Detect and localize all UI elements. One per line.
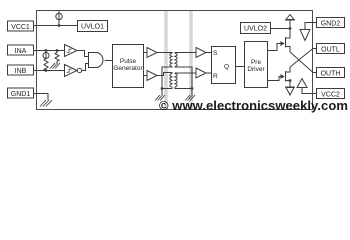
pin GND2 [317, 18, 345, 28]
pin VCC1 [8, 21, 34, 31]
wire gate Q1 [268, 44, 280, 51]
wire T1 primary return [162, 67, 172, 89]
node INA-clamp [45, 49, 48, 52]
wire INA [34, 50, 65, 52]
ground primary [155, 89, 165, 101]
isolation barrier [166, 11, 191, 110]
resistor R1 [44, 59, 48, 72]
pin GND1 [8, 88, 34, 98]
svg-text:GND2: GND2 [321, 21, 341, 28]
pin OUTH [317, 68, 345, 78]
wire OUTL pin [313, 48, 316, 50]
pre driver U3 [245, 42, 268, 88]
wire T1 secondary return [175, 67, 192, 89]
clamp source D1 [43, 51, 49, 60]
wire UVLO2 to node [271, 27, 292, 30]
wire INB [34, 70, 65, 72]
arrow VCC2 to stage [297, 79, 307, 88]
UVLO1 U4 [78, 21, 108, 32]
svg-text:INB: INB [15, 68, 27, 75]
svg-text:S: S [213, 50, 218, 57]
schmitt buffer ST1 [65, 45, 78, 57]
wire G1 to pulse generator [105, 60, 112, 62]
svg-text:R: R [213, 73, 218, 80]
arrow GND2 to stage [300, 30, 310, 41]
watermark [159, 98, 350, 113]
transformer T1 secondary [175, 53, 177, 67]
wire GND1 [34, 94, 49, 101]
svg-text:INA: INA [15, 48, 27, 55]
wire to buffer B2 [144, 75, 148, 77]
wire T2 primary return [161, 87, 172, 90]
svg-text:OUTH: OUTH [321, 71, 341, 78]
transformer T2 secondary [175, 74, 177, 88]
wire T2 secondary top [175, 72, 196, 75]
transistor Q2 [279, 67, 291, 82]
wire VCC2 pin [302, 88, 316, 94]
svg-text:Generator: Generator [113, 65, 143, 72]
wire B1 to T1 [157, 52, 172, 55]
receiver B3 [196, 48, 206, 58]
receiver B4 [196, 68, 206, 78]
wire OUTH pin [313, 72, 316, 74]
resistor R2 [55, 51, 59, 64]
svg-text:Pre: Pre [251, 59, 262, 66]
pin INA [8, 45, 34, 55]
terminal tap VCC1 [56, 11, 62, 27]
schmitt inverter ST2 [65, 65, 82, 77]
wire VCC1 to UVLO1 [34, 25, 78, 27]
transformer T2 primary [170, 74, 172, 88]
wire Q2 to OUTL (diagonal) [290, 49, 313, 68]
wire GND2 pin [305, 23, 316, 30]
UVLO2 U6 [241, 23, 271, 34]
wire gate Q2 [268, 77, 280, 81]
svg-text:UVLO1: UVLO1 [81, 24, 104, 31]
IC outline [37, 11, 313, 110]
arrow to GND2 rail [285, 15, 295, 29]
pin VCC2 [317, 89, 345, 99]
buffer B1 [147, 48, 157, 58]
wire B4 to R [206, 72, 211, 74]
svg-text:UVLO2: UVLO2 [244, 26, 267, 33]
svg-text:Pulse: Pulse [120, 58, 137, 65]
wire ST2 to G1 [82, 64, 88, 71]
node INA-R2 [56, 49, 59, 52]
wire B3 to S [206, 52, 211, 54]
ground secondary [185, 89, 195, 101]
buffer B2 [147, 71, 157, 81]
wire T1 secondary top [175, 52, 196, 55]
wire ST1 to G1 [77, 51, 88, 57]
wire T2 secondary return [175, 87, 193, 90]
pin OUTL [317, 44, 345, 54]
pulse generator U5 [113, 45, 144, 88]
svg-text:Driver: Driver [247, 66, 265, 73]
svg-text:OUTL: OUTL [321, 47, 340, 54]
svg-text:GND1: GND1 [11, 91, 31, 98]
transformer T1 primary [170, 53, 172, 67]
transistor Q1 [279, 29, 290, 53]
svg-text:Q: Q [224, 64, 229, 71]
wire Q1 to OUTH (diagonal) [290, 52, 313, 73]
wire Q to pre-driver [236, 66, 245, 68]
pin INB [8, 65, 34, 75]
svg-text:VCC1: VCC1 [11, 24, 30, 31]
ground R2 [50, 63, 60, 69]
AND gate G1 [89, 53, 103, 68]
SR latch U2 [212, 47, 236, 84]
arrow to VCC2 rail [285, 81, 295, 96]
wire to buffer B1 [144, 52, 148, 54]
wire B2 to T2 [157, 73, 172, 76]
ground GND1 [40, 100, 52, 107]
